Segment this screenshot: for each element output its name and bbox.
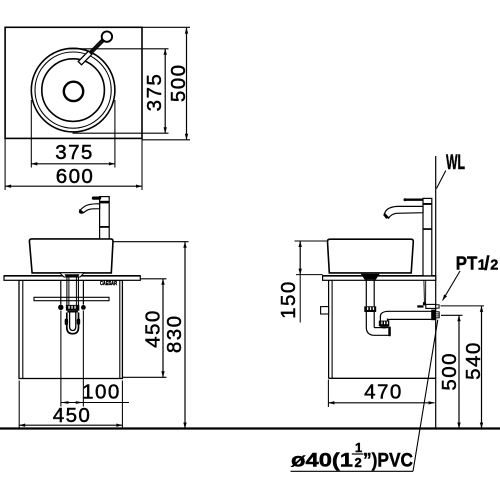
supply wall nut xyxy=(436,305,439,308)
supply tube left line xyxy=(423,280,426,302)
supply pipe to wall xyxy=(426,304,436,308)
vessel sink (side) xyxy=(328,239,414,273)
dim line 450 bottom xyxy=(19,424,122,426)
svg-text:2: 2 xyxy=(355,455,362,470)
dim line 600 xyxy=(5,185,142,187)
trap nut B bottom curve xyxy=(380,326,389,328)
trap nut (front) xyxy=(66,305,79,311)
faucet collar black band (front) xyxy=(100,201,110,204)
ext line 150 top xyxy=(295,240,327,242)
svg-text:470: 470 xyxy=(364,380,403,403)
ext line 540 xyxy=(441,305,485,307)
svg-text:”)PVC: ”)PVC xyxy=(363,450,413,472)
PVC label underline xyxy=(291,470,414,472)
faucet lever dark arm (plan) xyxy=(90,39,104,53)
ext line 375 vert top xyxy=(67,48,169,50)
cabinet (side) bottom xyxy=(329,377,436,379)
svg-text:1: 1 xyxy=(355,440,362,455)
countertop square 600x500 xyxy=(5,27,142,138)
vessel sink (front) xyxy=(29,239,113,273)
svg-text:600: 600 xyxy=(56,165,95,188)
drain wall escutcheon xyxy=(431,310,435,321)
countertop slab (side) xyxy=(323,276,436,281)
drain flange (front) xyxy=(60,273,84,277)
countertop top edge thick (side) xyxy=(323,275,436,277)
tailpipe inner right (front) xyxy=(75,277,77,305)
nut slits xyxy=(68,306,69,309)
dim line 450 right xyxy=(162,279,164,378)
drain arm to wall bottom (side) xyxy=(388,319,432,321)
ext line 500 xyxy=(441,314,463,316)
svg-text:WL: WL xyxy=(446,151,465,174)
faucet riser pipe (side) xyxy=(423,198,432,275)
ext line 500 vert top xyxy=(142,26,190,28)
tailpipe outer left (front) xyxy=(66,277,68,305)
supply tube right line xyxy=(425,280,427,302)
svg-text:ø40(1: ø40(1 xyxy=(291,450,353,472)
trap side lug right xyxy=(77,319,80,325)
ext line 450 bottom left xyxy=(18,381,20,428)
drain arm to wall top (side) xyxy=(380,311,431,316)
trap U inner (front) xyxy=(70,313,76,331)
ext line 600 left xyxy=(4,139,6,190)
cabinet right inner panel line xyxy=(119,280,121,378)
rod end ball right xyxy=(81,305,86,310)
dim line 470 xyxy=(328,402,434,404)
ext line 375 vert bottom xyxy=(73,132,169,134)
handle knob (side) xyxy=(404,198,407,201)
trap riser (side) xyxy=(379,316,381,321)
wall line xyxy=(435,156,437,429)
svg-text:375: 375 xyxy=(143,73,166,112)
basin mid rim circle xyxy=(35,52,111,128)
basin inner circle xyxy=(42,59,105,122)
cabinet left inner panel line xyxy=(22,280,24,378)
floor line xyxy=(0,427,500,429)
tailpipe outer right (front) xyxy=(77,277,79,305)
svg-text:375: 375 xyxy=(55,141,94,164)
faucet spout (front) xyxy=(79,204,99,213)
angle valve handle xyxy=(417,305,423,307)
trap bottom elbow inner (side) xyxy=(374,327,388,329)
svg-text:150: 150 xyxy=(277,280,300,319)
dim line 500 xyxy=(458,315,460,428)
dim line 100 xyxy=(61,402,129,404)
dim line 150 tail xyxy=(299,275,301,323)
ext line 470 left xyxy=(327,380,329,408)
tailpipe inner left (front) xyxy=(68,277,70,305)
ext line 375 horiz right xyxy=(114,100,116,168)
faucet handle (front) xyxy=(93,197,99,200)
ext line 100 right xyxy=(82,311,84,407)
svg-text:100: 100 xyxy=(82,381,121,404)
trap nut B (side) xyxy=(379,321,390,327)
towel bar xyxy=(34,297,109,300)
svg-text:500: 500 xyxy=(167,64,190,103)
ext line 450 right top xyxy=(140,278,166,280)
faucet base circle (plan) xyxy=(102,31,112,41)
nut lower collar xyxy=(67,311,78,313)
trap pipe below nut (side) xyxy=(365,312,367,327)
svg-text:540: 540 xyxy=(462,341,485,380)
faucet riser pipe (front) xyxy=(100,197,110,239)
drain flange dark bar xyxy=(65,274,80,277)
faucet handle (side) xyxy=(405,199,423,201)
basin outer rim circle xyxy=(31,48,115,132)
faucet spout dark tip (front) xyxy=(79,209,84,214)
rod end ball left xyxy=(58,305,63,310)
mounting rod right xyxy=(82,281,84,305)
faucet spout dark tip (side) xyxy=(383,213,389,219)
trap nut A (side) xyxy=(364,306,376,312)
ext line 600 right xyxy=(141,139,143,190)
trap bottom elbow outer (side) xyxy=(366,327,388,335)
PT leader xyxy=(443,271,461,301)
cabinet outer box xyxy=(19,280,122,378)
faucet collar black band (side) xyxy=(423,203,432,205)
faucet spout outlined arm (plan) xyxy=(78,51,92,65)
svg-text:CAESAR: CAESAR xyxy=(100,281,117,287)
dim line 150 xyxy=(299,241,301,275)
arrow 100 right (inside, pointing right) xyxy=(76,401,84,404)
dim line 500 vert xyxy=(186,28,188,140)
faucet joint band (side) xyxy=(423,228,432,230)
cabinet (side) front face lines xyxy=(328,280,330,378)
trap cleanout plug cap (side) xyxy=(388,327,391,337)
trap U outer (front) xyxy=(67,313,79,334)
svg-text:500: 500 xyxy=(438,352,461,391)
supply elbow xyxy=(423,302,426,305)
ext line 830 top xyxy=(114,241,189,243)
trap side lug left xyxy=(65,319,68,326)
wall bracket tab (side) xyxy=(321,307,329,314)
dim line 540 xyxy=(481,306,483,429)
svg-text:450: 450 xyxy=(53,404,92,427)
dim line 375 vert xyxy=(164,49,166,133)
countertop top edge thick xyxy=(4,275,140,277)
arrow 100 left (inside, pointing left) xyxy=(61,401,69,404)
ext line 500 vert bottom xyxy=(143,139,191,141)
faucet joint band (front) xyxy=(100,226,109,228)
PVC leader diagonal xyxy=(413,320,438,472)
ext line 100 left xyxy=(60,311,62,407)
dim line 830 xyxy=(184,242,186,429)
WL leader xyxy=(437,171,446,189)
svg-text:PT: PT xyxy=(456,252,478,273)
ext line 150 bottom xyxy=(296,274,323,276)
ext line 375 horiz left xyxy=(30,100,32,168)
PVC label text xyxy=(291,440,413,472)
drain circle xyxy=(64,82,83,101)
tailpipe (side) xyxy=(365,279,367,306)
faucet spout (side) xyxy=(384,206,423,218)
ext line 450 bottom right xyxy=(121,381,123,428)
dim line 375 horiz xyxy=(31,163,115,165)
drain wall nut xyxy=(436,312,440,318)
mounting rod left xyxy=(60,281,62,305)
drain flange (side) xyxy=(362,274,379,279)
svg-text:830: 830 xyxy=(163,315,186,354)
svg-text:450: 450 xyxy=(141,309,164,348)
countertop slab (front) xyxy=(4,276,140,281)
ext line 450 right bottom xyxy=(122,376,166,378)
svg-text:2: 2 xyxy=(490,257,498,273)
